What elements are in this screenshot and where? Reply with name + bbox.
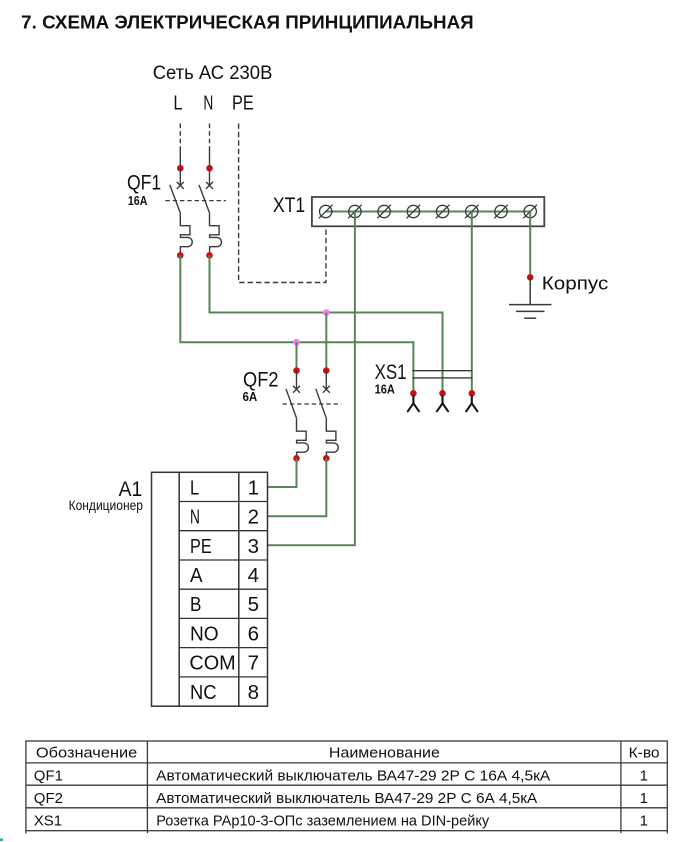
XT1 terminal 5 [436, 205, 450, 219]
circuit breaker QF1 pole 2 [199, 168, 221, 255]
svg-text:Кондиционер: Кондиционер [69, 498, 143, 513]
svg-text:NC: NC [190, 681, 217, 704]
terminal block XT1 body [312, 197, 544, 226]
svg-text:1: 1 [640, 790, 648, 807]
unit A1 body [152, 472, 268, 706]
wire L input dashed [179, 124, 181, 148]
XT1 terminal 4 [407, 205, 421, 219]
wire N input solid [209, 147, 211, 168]
wire QF2 pole1 to A1 pin1 [268, 458, 297, 487]
svg-text:3: 3 [248, 535, 259, 558]
pin QF2 pole1 output dot [293, 455, 300, 462]
svg-text:XT1: XT1 [273, 193, 305, 217]
XT1 terminal 7 [494, 205, 508, 219]
svg-text:К-во: К-во [629, 745, 660, 761]
svg-text:1: 1 [640, 767, 648, 784]
svg-text:XS1: XS1 [34, 813, 62, 830]
wire QF2 pole2 to A1 pin2 [268, 458, 327, 516]
XT1 PE bus wire [326, 211, 531, 213]
pin XS1 PE contact dot [469, 390, 476, 397]
wire L from QF1 to XS1 left contact [180, 255, 413, 393]
unit A1 row dividers [179, 502, 267, 677]
svg-text:QF2: QF2 [34, 790, 63, 807]
XT1 terminal 2 [348, 205, 362, 219]
svg-text:Обозначение: Обозначение [36, 745, 137, 761]
svg-text:Наименование: Наименование [329, 745, 440, 761]
wire L input solid [179, 147, 181, 168]
pin QF2 pole1 input dot [293, 367, 300, 374]
pin QF1 pole2 output dot [206, 252, 213, 259]
svg-text:6: 6 [248, 622, 259, 645]
svg-text:Автоматический выключатель ВА4: Автоматический выключатель ВА47-29 2Р С … [156, 767, 550, 784]
screenshot artifact mark bottom-left [0, 839, 3, 842]
junction N to QF2 (pink) [323, 309, 330, 316]
pin QF1 pole1 output dot [177, 252, 184, 259]
svg-text:QF2: QF2 [243, 367, 279, 391]
wire PE dashed route to XT1 terminal 1 [239, 124, 326, 283]
svg-text:Корпус: Корпус [542, 273, 609, 293]
XT1 terminal 1 [319, 205, 333, 219]
wire XT1 terminal2 to A1 pin3 [268, 212, 355, 546]
svg-text:4: 4 [248, 564, 259, 587]
wire junction to QF2 pole1 [296, 342, 298, 370]
svg-text:N: N [190, 506, 200, 529]
pin QF1 pole2 input dot [206, 165, 213, 172]
XS1 PE contact fork [466, 396, 477, 412]
pin QF2 pole2 input dot [323, 367, 330, 374]
QF1 trip link dashed [165, 200, 226, 202]
wire N input dashed [209, 124, 211, 148]
svg-text:XS1: XS1 [375, 360, 407, 384]
wire XT1 terminal6 to XS1 PE contact [471, 212, 473, 394]
circuit breaker QF1 pole 1 [170, 168, 192, 255]
svg-text:1: 1 [248, 476, 259, 499]
XS1 N contact fork [437, 396, 448, 412]
svg-text:7. СХЕМА ЭЛЕКТРИЧЕСКАЯ ПРИНЦИП: 7. СХЕМА ЭЛЕКТРИЧЕСКАЯ ПРИНЦИПИАЛЬНАЯ [21, 11, 474, 32]
svg-text:1: 1 [640, 813, 648, 830]
svg-text:PE: PE [190, 535, 212, 558]
XT1 terminal 8 [523, 205, 537, 219]
svg-text:Автоматический выключатель ВА4: Автоматический выключатель ВА47-29 2Р С … [156, 790, 537, 807]
chassis ground symbol [509, 277, 552, 318]
svg-text:NO: NO [190, 622, 219, 645]
pin QF2 pole2 output dot [323, 455, 330, 462]
pin QF1 pole1 input dot [177, 165, 184, 172]
parts table grid [26, 741, 667, 834]
socket XS1 body lines [412, 371, 472, 378]
svg-text:5: 5 [248, 593, 259, 616]
wire N from QF1 to XS1 middle contact [210, 255, 443, 393]
svg-text:Сеть АС 230В: Сеть АС 230В [153, 63, 273, 84]
pin chassis dot [527, 274, 534, 281]
wire junction to QF2 pole2 [325, 313, 327, 371]
svg-text:Розетка РАр10-3-ОПс заземление: Розетка РАр10-3-ОПс заземлением на DIN-р… [156, 813, 489, 830]
circuit breaker QF2 pole 2 [316, 371, 338, 459]
svg-text:L: L [190, 476, 199, 499]
svg-text:L: L [173, 92, 182, 115]
wire XT1 terminal8 to chassis [529, 212, 531, 278]
pin XS1 L contact dot [410, 390, 417, 397]
svg-text:16А: 16А [375, 381, 396, 396]
svg-text:COM: COM [189, 652, 235, 675]
XT1 terminal 3 [377, 205, 391, 219]
QF2 trip link dashed [283, 403, 342, 405]
svg-text:В: В [190, 593, 201, 616]
junction L to QF2 (pink) [293, 339, 300, 346]
svg-text:QF1: QF1 [127, 171, 161, 195]
circuit breaker QF2 pole 1 [286, 371, 308, 459]
svg-text:PE: PE [232, 92, 254, 115]
svg-text:7: 7 [248, 652, 259, 675]
pin XS1 N contact dot [439, 390, 446, 397]
svg-text:А: А [190, 564, 203, 587]
svg-text:N: N [203, 92, 213, 115]
svg-text:2: 2 [248, 506, 259, 529]
svg-text:6А: 6А [243, 389, 258, 404]
XT1 terminal 6 [465, 205, 479, 219]
svg-text:16А: 16А [128, 193, 148, 208]
XS1 L contact fork [408, 396, 419, 412]
svg-text:QF1: QF1 [34, 767, 63, 784]
svg-text:8: 8 [248, 681, 259, 704]
